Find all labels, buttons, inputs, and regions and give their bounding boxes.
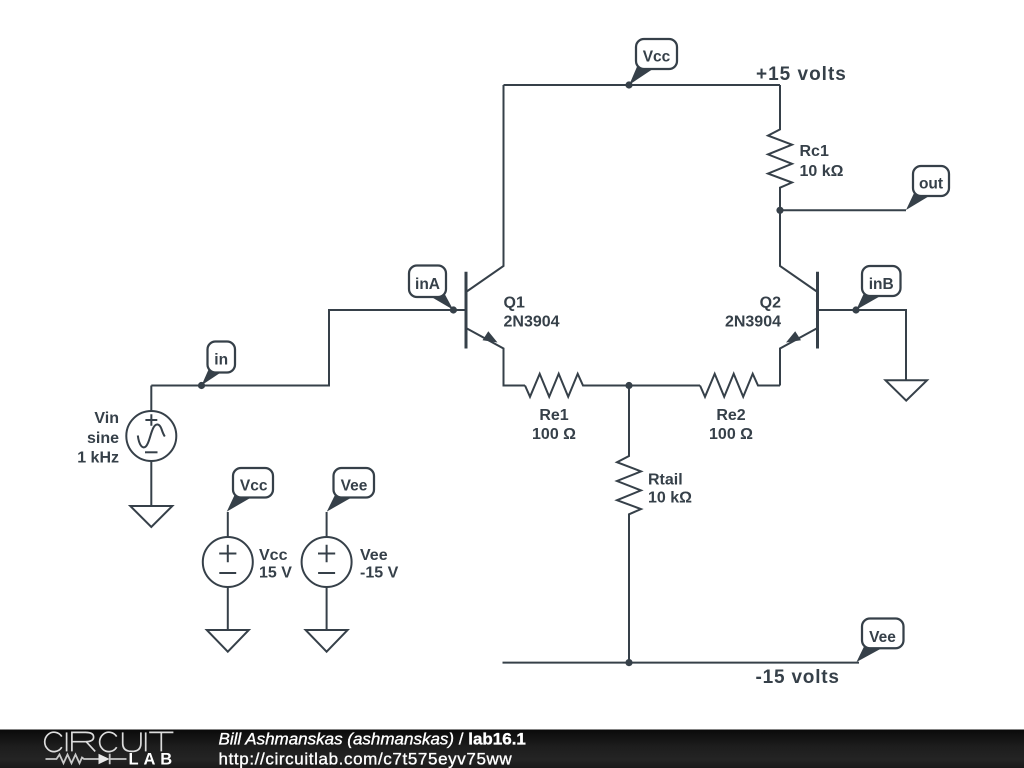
svg-text:100 Ω: 100 Ω xyxy=(532,426,576,443)
ground (Vee) xyxy=(306,630,348,652)
node Vcc junction dot xyxy=(625,81,632,88)
Q1 emitter arrow xyxy=(483,331,498,342)
Vcc minus marker xyxy=(219,572,236,574)
node-label inB xyxy=(856,266,900,310)
Vin plus marker xyxy=(145,414,157,425)
resistor Re2 xyxy=(700,374,780,397)
wire Vee bottom lead xyxy=(326,587,328,630)
svg-text:2N3904: 2N3904 xyxy=(504,314,560,331)
svg-text:Rtail: Rtail xyxy=(648,471,683,488)
transistor Q1 xyxy=(465,272,468,349)
svg-text:Vcc: Vcc xyxy=(240,478,268,495)
svg-text:Vee: Vee xyxy=(360,547,388,564)
Vin sine symbol xyxy=(138,424,165,447)
node inA junction dot xyxy=(450,306,457,313)
node-label Vee (source) xyxy=(327,468,374,512)
node tail junction dot xyxy=(625,382,632,389)
svg-text:LAB: LAB xyxy=(129,751,178,768)
svg-text:Q1: Q1 xyxy=(504,295,525,312)
svg-text:inA: inA xyxy=(415,276,440,293)
svg-text:100 Ω: 100 Ω xyxy=(709,426,753,443)
node-label Vcc (top) xyxy=(629,39,677,85)
wire Vee bottom rail xyxy=(503,662,860,664)
wire Q2 collector drop xyxy=(780,210,818,292)
node Vee junction dot xyxy=(625,659,632,666)
svg-text:out: out xyxy=(919,176,943,193)
svg-text:10 kΩ: 10 kΩ xyxy=(648,490,692,507)
node inB junction dot xyxy=(852,306,859,313)
wire out xyxy=(780,209,906,211)
wire Vin bottom lead xyxy=(150,461,152,506)
svg-text:2N3904: 2N3904 xyxy=(725,314,781,331)
source Vee body xyxy=(302,537,352,587)
svg-text:1 kHz: 1 kHz xyxy=(77,450,119,467)
Vee plus marker xyxy=(318,545,335,563)
svg-text:sine: sine xyxy=(87,430,119,447)
Q2 emitter arrow xyxy=(786,331,801,342)
svg-text:10 kΩ: 10 kΩ xyxy=(800,163,844,180)
svg-text:Rc1: Rc1 xyxy=(800,143,829,160)
svg-text:http://circuitlab.com/c7t575ey: http://circuitlab.com/c7t575eyv75ww xyxy=(219,750,513,768)
ground (Vin) xyxy=(130,506,172,527)
svg-text:Vcc: Vcc xyxy=(643,49,671,66)
svg-text:Vcc: Vcc xyxy=(259,547,288,564)
Vcc plus marker xyxy=(219,545,236,563)
svg-text:Re2: Re2 xyxy=(716,407,745,424)
svg-text:-15 V: -15 V xyxy=(360,565,399,582)
wire Q1 emitter to Re1 xyxy=(466,328,525,386)
svg-text:inB: inB xyxy=(869,276,894,293)
svg-text:15 V: 15 V xyxy=(259,565,292,582)
wire Q2 base xyxy=(818,310,907,380)
source Vcc body xyxy=(203,537,253,587)
svg-text:-15 volts: -15 volts xyxy=(756,667,840,688)
wire Vin top lead xyxy=(150,386,152,412)
wire Vcc top lead xyxy=(227,512,229,537)
svg-text:Vee: Vee xyxy=(341,478,368,495)
wire Q1 collector riser xyxy=(466,85,504,292)
wire in-net to Q1 base xyxy=(151,310,464,386)
Vee minus marker xyxy=(318,572,335,574)
wire Vee top lead xyxy=(326,512,328,537)
node-label Vee (bottom) xyxy=(857,619,904,663)
svg-text:in: in xyxy=(214,352,228,369)
wire Vcc bottom lead xyxy=(227,587,229,630)
wire tail node to Re2 xyxy=(629,385,700,387)
wire Vcc top rail xyxy=(504,84,781,86)
svg-text:Vee: Vee xyxy=(869,629,896,646)
resistor Rtail xyxy=(617,386,641,663)
node out junction dot xyxy=(776,207,783,214)
node-label out xyxy=(906,166,949,210)
wire Q2 emitter to Re2 xyxy=(780,328,818,386)
resistor Re1 xyxy=(525,374,629,397)
svg-text:Q2: Q2 xyxy=(760,295,781,312)
ground (Vcc) xyxy=(207,630,249,652)
node-label inA xyxy=(409,266,453,310)
Vin minus marker xyxy=(145,451,158,453)
logo CIRCUIT (drawn letters) xyxy=(45,732,174,751)
svg-text:Vin: Vin xyxy=(94,410,119,427)
node in junction dot xyxy=(198,382,205,389)
transistor Q2 xyxy=(816,272,819,349)
ground (inB) xyxy=(886,380,928,400)
node-label Vcc (source) xyxy=(227,468,273,512)
svg-text:+15 volts: +15 volts xyxy=(756,64,847,85)
logo glyph resistor+diode xyxy=(46,755,99,764)
resistor Rc1 xyxy=(768,85,792,210)
svg-text:Re1: Re1 xyxy=(539,407,568,424)
svg-text:Bill Ashmanskas (ashmanskas) /: Bill Ashmanskas (ashmanskas) / lab16.1 xyxy=(219,730,526,749)
source Vin (sine) body xyxy=(126,411,176,461)
node-label in xyxy=(202,342,235,386)
